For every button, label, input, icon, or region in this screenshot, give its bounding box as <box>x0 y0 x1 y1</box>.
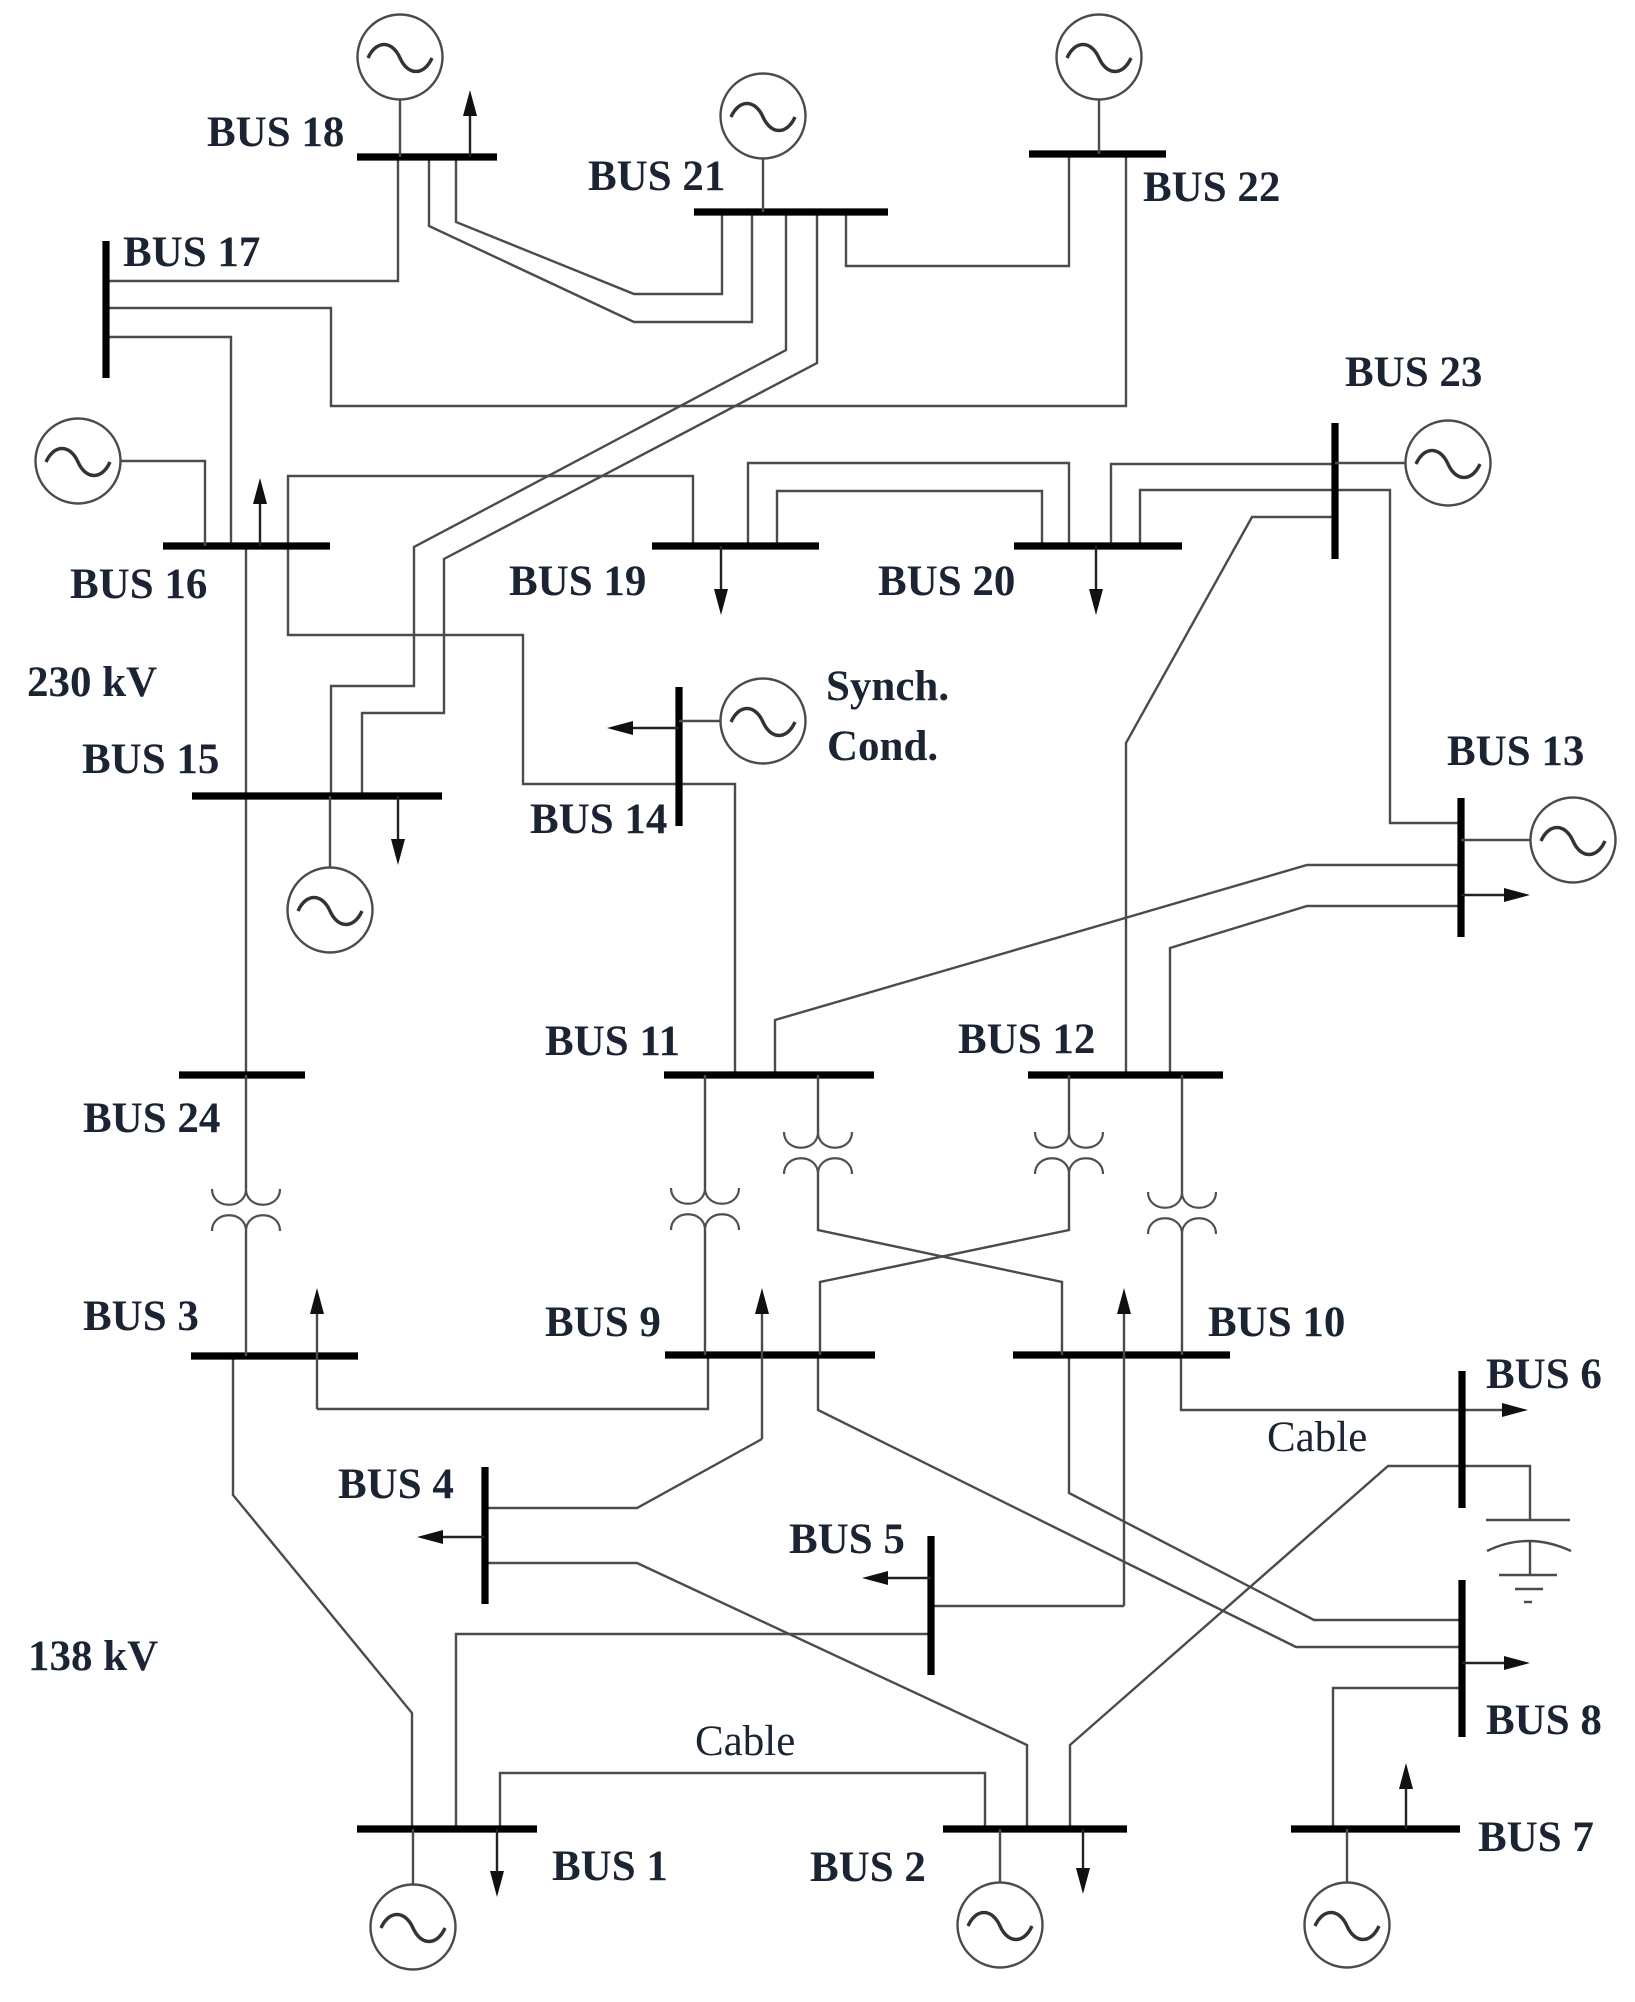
load arrow bus 5 (left) <box>862 1571 931 1585</box>
wire line 18-21 circuit 1 <box>456 157 722 294</box>
wire line 20-23 circuit 1 <box>1111 464 1335 546</box>
wire line 2-6 <box>1070 1466 1462 1829</box>
bus 24 bar <box>179 1071 305 1078</box>
bus 3 bar <box>191 1352 358 1359</box>
bus 10 bar <box>1013 1351 1230 1358</box>
svg-text:BUS 6: BUS 6 <box>1486 1351 1602 1398</box>
wire line 20-23 circuit 2 <box>1140 490 1335 546</box>
bus 8 bar <box>1458 1580 1465 1737</box>
generator at bus 15 <box>288 796 373 953</box>
load arrow bus 7 (up) <box>1399 1763 1413 1829</box>
wire line 5-10 <box>931 1605 1124 1607</box>
svg-text:Cable: Cable <box>695 1718 795 1765</box>
load arrow bus 4 (left) <box>417 1530 485 1544</box>
svg-text:BUS 19: BUS 19 <box>509 558 646 605</box>
bus 19 bar <box>652 542 819 549</box>
wire line 14-16 <box>288 546 679 784</box>
load arrow bus 3 (up through bar, on line 3-9) <box>310 1288 324 1409</box>
wire line 19-20 circuit 2 <box>777 491 1042 546</box>
bus 16 bar <box>163 542 330 549</box>
wire line 2-4 <box>485 1563 1027 1829</box>
generator at bus 21 <box>721 74 806 213</box>
svg-text:BUS 9: BUS 9 <box>545 1299 661 1346</box>
wire line 15-21 circuit 2 <box>362 212 817 796</box>
svg-text:BUS 7: BUS 7 <box>1478 1814 1594 1861</box>
wire cable 6-10 <box>1181 1355 1502 1410</box>
wire line 1-5 <box>456 1634 931 1829</box>
bus 9 bar <box>665 1351 875 1358</box>
wire line 11-14 <box>679 784 735 1075</box>
svg-text:BUS 22: BUS 22 <box>1143 164 1280 211</box>
load arrow bus 10 (up through bar, on line 5-10) <box>1117 1288 1131 1606</box>
svg-text:BUS 18: BUS 18 <box>207 109 344 156</box>
bus 20 bar <box>1014 542 1182 549</box>
generator at bus 23 <box>1335 421 1491 506</box>
generator at bus 2 <box>958 1829 1043 1968</box>
generator at bus 1 <box>371 1829 456 1970</box>
bus 15 bar <box>192 792 442 799</box>
svg-text:230 kV: 230 kV <box>27 659 157 706</box>
bus 23 bar <box>1331 423 1338 559</box>
wire line 17-18 <box>106 157 398 281</box>
svg-text:BUS 1: BUS 1 <box>552 1843 668 1890</box>
wire line 7-8 <box>1333 1688 1462 1829</box>
transformer 10-11 <box>784 1075 1062 1355</box>
svg-text:BUS 11: BUS 11 <box>545 1018 680 1065</box>
wire line 17-22 <box>106 154 1126 406</box>
bus 14 bar <box>675 687 682 826</box>
svg-text:Cond.: Cond. <box>827 723 938 770</box>
wire line 15-24 <box>245 796 247 1075</box>
generator at bus 13 <box>1461 798 1616 883</box>
wire line 19-20 circuit 1 <box>748 463 1069 546</box>
wire line 8-10 <box>1069 1355 1462 1620</box>
svg-text:Synch.: Synch. <box>826 663 949 710</box>
transformer 3-24 <box>212 1075 280 1356</box>
load arrow bus 18 (up) <box>463 90 477 157</box>
shunt capacitor at bus 6 <box>1462 1466 1571 1602</box>
bus 5 bar <box>927 1536 934 1675</box>
svg-text:BUS 4: BUS 4 <box>338 1461 454 1508</box>
wire line 3-9 <box>317 1356 708 1409</box>
svg-text:BUS 8: BUS 8 <box>1486 1697 1602 1744</box>
generator at bus 7 <box>1305 1829 1390 1968</box>
load arrow bus 19 (down) <box>714 546 728 615</box>
bus 21 bar <box>694 208 888 215</box>
transformer 10-12 <box>1148 1075 1216 1355</box>
svg-text:BUS 21: BUS 21 <box>588 153 725 200</box>
wire line 13-23 <box>1335 490 1461 823</box>
wire line 16-17 <box>106 337 231 546</box>
transformer 9-12 <box>820 1075 1103 1355</box>
svg-text:BUS 15: BUS 15 <box>82 736 219 783</box>
load arrow bus 14 (left) <box>607 721 679 735</box>
bus 4 bar <box>481 1467 488 1604</box>
bus 6 bar <box>1458 1371 1465 1508</box>
svg-text:BUS 13: BUS 13 <box>1447 728 1584 775</box>
load arrow bus 13 (right) <box>1461 888 1530 902</box>
svg-text:BUS 24: BUS 24 <box>83 1095 220 1142</box>
wire cable 1-2 <box>500 1773 985 1829</box>
transformer 9-11 <box>671 1075 739 1355</box>
bus 18 bar <box>357 153 497 160</box>
load arrow bus 8 (right) <box>1462 1656 1530 1670</box>
svg-text:BUS 12: BUS 12 <box>958 1016 1095 1063</box>
svg-text:BUS 23: BUS 23 <box>1345 349 1482 396</box>
generator at bus 18 <box>358 15 443 158</box>
bus 17 bar <box>102 241 109 378</box>
svg-text:BUS 17: BUS 17 <box>123 229 260 276</box>
wire line 1-3 <box>233 1356 412 1829</box>
bus 13 bar <box>1457 798 1464 937</box>
wire line 16-19 <box>288 476 693 546</box>
svg-text:BUS 2: BUS 2 <box>810 1844 926 1891</box>
bus 2 bar <box>943 1825 1127 1832</box>
load arrow bus 6 (right, on cable 6-10) <box>1502 1403 1528 1417</box>
bus 12 bar <box>1028 1071 1223 1078</box>
bus 1 bar <box>357 1825 537 1832</box>
wire line 8-9 <box>818 1355 1462 1647</box>
load arrow bus 9 (up through bar, on line 4-9) <box>755 1288 769 1439</box>
wire line 12-23 <box>1126 517 1335 1075</box>
wire line 11-13 <box>775 865 1461 1075</box>
wire line 4-9 <box>485 1439 762 1508</box>
wire line 21-22 <box>846 154 1069 266</box>
load arrow bus 15 (down) <box>391 796 405 865</box>
svg-text:BUS 10: BUS 10 <box>1208 1299 1345 1346</box>
svg-text:BUS 5: BUS 5 <box>789 1516 905 1563</box>
bus 7 bar <box>1291 1825 1460 1832</box>
generator at bus 22 <box>1057 15 1142 155</box>
wire line 15-21 circuit 1 <box>331 212 786 796</box>
wire line 12-13 <box>1170 906 1461 1075</box>
load arrow bus 16 (up) <box>253 478 267 546</box>
load arrow bus 2 (down) <box>1076 1829 1090 1894</box>
svg-text:BUS 14: BUS 14 <box>530 796 667 843</box>
svg-text:BUS 20: BUS 20 <box>878 558 1015 605</box>
wire line 18-21 circuit 2 <box>429 157 752 322</box>
svg-text:BUS 3: BUS 3 <box>83 1293 199 1340</box>
bus 11 bar <box>664 1071 874 1078</box>
svg-text:138 kV: 138 kV <box>28 1633 158 1680</box>
wire line 15-16 <box>245 546 247 796</box>
svg-text:BUS 16: BUS 16 <box>70 561 207 608</box>
bus 22 bar <box>1029 150 1166 157</box>
synchronous condenser at bus 14 <box>679 679 806 764</box>
load arrow bus 1 (down) <box>490 1829 504 1897</box>
generator at bus 16 <box>36 419 206 547</box>
svg-text:Cable: Cable <box>1267 1414 1367 1461</box>
load arrow bus 20 (down) <box>1089 546 1103 615</box>
